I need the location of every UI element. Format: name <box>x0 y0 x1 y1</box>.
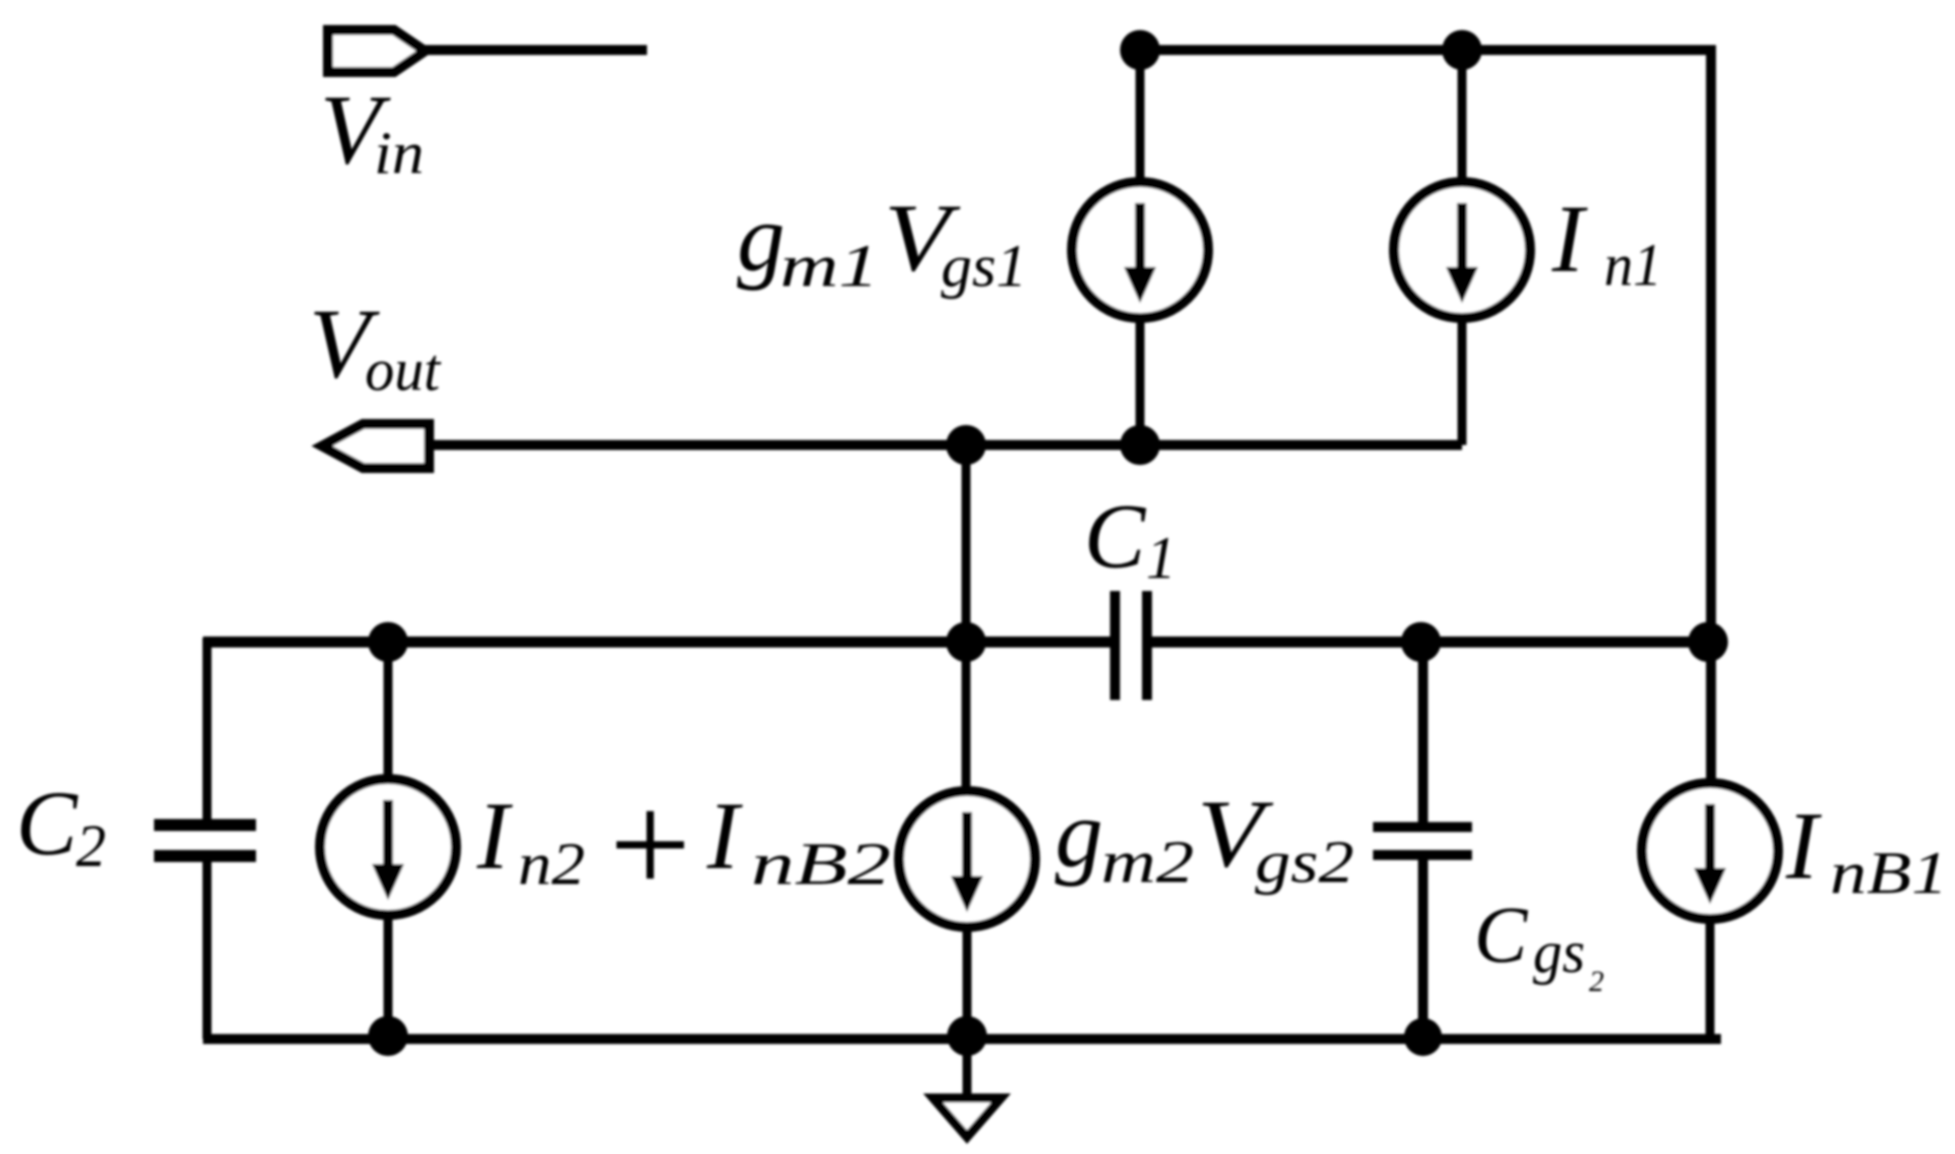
svg-text:I: I <box>1785 792 1822 899</box>
wire Vout node horizontal <box>429 440 1462 450</box>
node dot bottom ground <box>947 1016 987 1056</box>
svg-text:+: + <box>600 765 698 925</box>
svg-text:I: I <box>476 782 513 889</box>
svg-text:gs2: gs2 <box>1255 829 1354 895</box>
svg-text:m1: m1 <box>780 233 879 299</box>
svg-text:gs: gs <box>1533 919 1585 985</box>
wire Cgs2 upper <box>1418 642 1428 822</box>
output port Vout <box>322 424 429 468</box>
wire bottom rail <box>203 1034 1721 1044</box>
label gm1Vgs1 <box>737 184 1027 299</box>
capacitor Cgs2 <box>1373 827 1472 855</box>
current source gm2Vgs2 <box>899 791 1035 927</box>
label InB1 <box>1785 792 1948 906</box>
svg-text:gs1: gs1 <box>941 233 1027 299</box>
capacitor C1 <box>1115 591 1147 700</box>
node dot mid In2 <box>368 622 408 662</box>
node dot Vout junction <box>946 425 986 465</box>
wire gm1 lower <box>1136 322 1145 445</box>
input port Vin <box>328 30 425 72</box>
svg-text:n1: n1 <box>1604 232 1662 298</box>
wire middle rail left <box>203 637 1115 648</box>
node dot bottom Cgs2 <box>1404 1018 1442 1056</box>
svg-text:C: C <box>1084 485 1147 587</box>
current source gm1Vgs1 <box>1072 182 1208 318</box>
label Cgs2 <box>1474 892 1604 998</box>
svg-text:nB2: nB2 <box>751 831 891 897</box>
label C2 <box>16 772 106 879</box>
capacitor C2 <box>154 825 256 856</box>
wire In2 lower <box>384 918 393 1039</box>
svg-text:I: I <box>706 782 743 889</box>
wire In1 lower <box>1458 322 1467 445</box>
label gm2Vgs2 <box>1055 780 1354 895</box>
ground <box>933 1098 1001 1137</box>
wire gm2 lower <box>963 930 972 1039</box>
svg-text:m2: m2 <box>1101 829 1194 895</box>
node dot mid Cgs2 <box>1401 622 1441 662</box>
node dot bottom In2 <box>368 1016 408 1056</box>
current source In2+InB2 <box>320 779 456 915</box>
node dot mid x1 <box>946 622 986 662</box>
wire ground stub <box>963 1039 972 1094</box>
svg-text:g: g <box>1055 780 1103 887</box>
label In2+InB2 <box>476 765 891 925</box>
svg-text:I: I <box>1551 185 1588 292</box>
wire In2 upper <box>384 642 393 776</box>
svg-text:n2: n2 <box>518 831 585 897</box>
wire C2 upper <box>203 638 212 820</box>
svg-text:g: g <box>737 184 785 291</box>
label C1 <box>1084 485 1176 591</box>
label Vout <box>309 288 441 403</box>
svg-text:nB1: nB1 <box>1830 840 1948 906</box>
wire In1 upper <box>1458 50 1467 178</box>
wire node x1 vertical <box>962 445 971 642</box>
wire Cgs2 lower <box>1418 860 1428 1039</box>
current source In1 <box>1394 182 1530 318</box>
wire right vertical <box>1706 50 1716 779</box>
current source InB1 <box>1642 783 1778 919</box>
wire C2 lower <box>203 862 212 1039</box>
node dot top gm1 <box>1120 30 1160 70</box>
wire top rail <box>1139 45 1716 55</box>
svg-text:in: in <box>374 120 424 186</box>
svg-text:2: 2 <box>76 813 106 879</box>
label In1 <box>1551 185 1662 298</box>
label Vin <box>320 74 424 186</box>
svg-text:2: 2 <box>1589 965 1604 998</box>
svg-text:out: out <box>365 337 441 403</box>
svg-text:C: C <box>1474 892 1529 980</box>
node dot mid InB1 <box>1688 622 1728 662</box>
wire gm2 upper <box>962 642 971 788</box>
node dot drain1 junction <box>1120 425 1160 465</box>
wire InB1 lower <box>1706 922 1715 1039</box>
node dot top In1 <box>1442 30 1482 70</box>
wire Vin lead <box>425 45 647 55</box>
wire middle rail right <box>1147 637 1716 648</box>
svg-text:1: 1 <box>1146 525 1176 591</box>
svg-text:C: C <box>16 772 79 874</box>
wire gm1 upper <box>1136 50 1145 178</box>
